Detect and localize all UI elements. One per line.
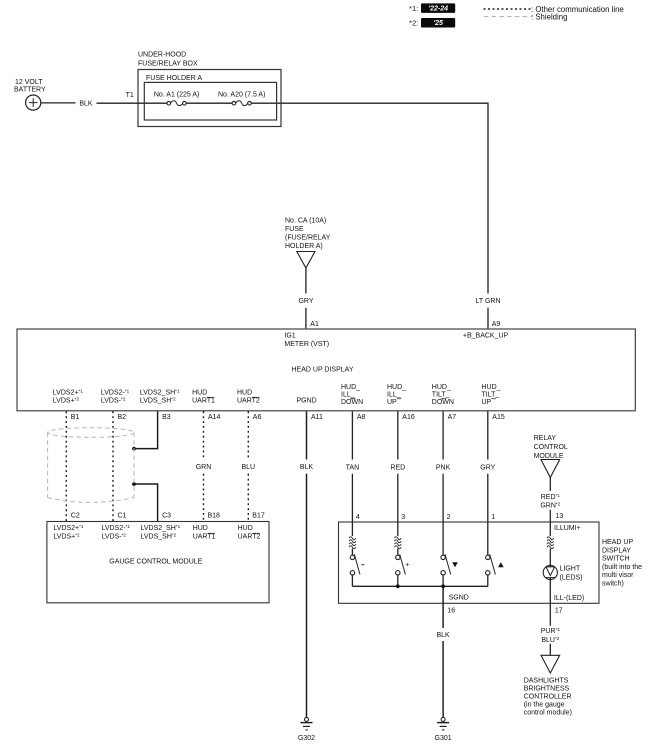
svg-text:TAN: TAN xyxy=(346,464,359,471)
svg-text:LVDS2_SH*1: LVDS2_SH*1 xyxy=(141,524,181,532)
svg-text:FUSE/RELAY BOX: FUSE/RELAY BOX xyxy=(138,61,198,68)
svg-text:DISPLAY: DISPLAY xyxy=(602,547,631,554)
svg-text:12 VOLT: 12 VOLT xyxy=(15,79,43,86)
svg-text:UART1: UART1 xyxy=(192,398,215,405)
svg-text:UP: UP xyxy=(482,399,492,406)
svg-text:HEAD UP: HEAD UP xyxy=(602,539,633,546)
svg-text:HUD_: HUD_ xyxy=(482,384,501,391)
svg-text:ILLUMI+: ILLUMI+ xyxy=(554,525,581,532)
svg-text:GRY: GRY xyxy=(298,298,313,305)
svg-text:HUD: HUD xyxy=(238,525,253,532)
svg-text:4: 4 xyxy=(356,514,360,521)
svg-text:GRY: GRY xyxy=(480,464,495,471)
svg-text:HUD: HUD xyxy=(237,389,252,396)
svg-text:ILL_: ILL_ xyxy=(341,391,355,398)
svg-text:switch): switch) xyxy=(602,581,624,588)
svg-text:METER (VST): METER (VST) xyxy=(284,341,329,348)
svg-text:RELAY: RELAY xyxy=(534,435,557,442)
svg-text:13: 13 xyxy=(556,513,564,520)
svg-text:HUD_: HUD_ xyxy=(341,384,360,391)
svg-text:LVDS2_SH*1: LVDS2_SH*1 xyxy=(140,388,180,396)
svg-text:control module): control module) xyxy=(524,710,572,717)
svg-text:DOWN: DOWN xyxy=(341,399,363,406)
svg-text:BLK: BLK xyxy=(300,464,314,471)
svg-text:ILL_: ILL_ xyxy=(387,391,401,398)
svg-text:C1: C1 xyxy=(118,513,127,520)
svg-text:C3: C3 xyxy=(162,513,171,520)
svg-text:GAUGE CONTROL MODULE: GAUGE CONTROL MODULE xyxy=(109,559,202,566)
svg-text:UART2: UART2 xyxy=(237,398,260,405)
svg-text:DASHLIGHTS: DASHLIGHTS xyxy=(524,677,569,684)
svg-text:'25: '25 xyxy=(433,20,443,27)
svg-text:ILL-(LED): ILL-(LED) xyxy=(554,595,584,602)
svg-text:(FUSE/RELAY: (FUSE/RELAY xyxy=(285,235,331,242)
svg-text:BLK: BLK xyxy=(79,100,93,107)
svg-text:A14: A14 xyxy=(208,414,221,421)
svg-text:BRIGHTNESS: BRIGHTNESS xyxy=(524,685,570,692)
svg-text:A7: A7 xyxy=(448,414,457,421)
svg-text:GRN: GRN xyxy=(196,464,212,471)
svg-text:3: 3 xyxy=(401,514,405,521)
svg-text:LVDS_SH*2: LVDS_SH*2 xyxy=(140,397,176,405)
svg-text:BATTERY: BATTERY xyxy=(14,87,46,94)
svg-text:FUSE: FUSE xyxy=(285,226,304,233)
svg-text:(built into the: (built into the xyxy=(602,564,642,571)
svg-text:HEAD UP DISPLAY: HEAD UP DISPLAY xyxy=(292,366,354,373)
svg-text:G302: G302 xyxy=(298,735,315,742)
svg-text:multi visor: multi visor xyxy=(602,572,634,579)
svg-text:SGND: SGND xyxy=(449,595,469,602)
svg-text:PGND: PGND xyxy=(297,398,317,405)
svg-text:TILT_: TILT_ xyxy=(482,391,500,398)
svg-text:B18: B18 xyxy=(208,513,221,520)
svg-text:PNK: PNK xyxy=(436,464,451,471)
svg-text:A15: A15 xyxy=(492,414,505,421)
svg-text:T1: T1 xyxy=(126,92,134,99)
svg-text:(LEDS): (LEDS) xyxy=(560,575,583,582)
svg-text:(in the gauge: (in the gauge xyxy=(524,702,565,709)
svg-text:A6: A6 xyxy=(253,414,262,421)
svg-text:+: + xyxy=(405,562,409,569)
svg-text:A16: A16 xyxy=(402,414,415,421)
svg-text:No. CA (10A): No. CA (10A) xyxy=(285,218,326,225)
svg-text:HUD: HUD xyxy=(193,525,208,532)
svg-text:17: 17 xyxy=(555,607,563,614)
svg-text:BLU: BLU xyxy=(241,464,255,471)
svg-text:MODULE: MODULE xyxy=(534,453,564,460)
svg-text:2: 2 xyxy=(447,514,451,521)
svg-text:UART2: UART2 xyxy=(238,534,261,541)
svg-text:*1:: *1: xyxy=(409,4,418,13)
svg-text:HUD_: HUD_ xyxy=(432,384,451,391)
svg-text:No. A20 (7.5 A): No. A20 (7.5 A) xyxy=(218,92,265,99)
svg-text:CONTROL: CONTROL xyxy=(534,444,568,451)
svg-text:BLK: BLK xyxy=(436,632,450,639)
svg-text:HUD: HUD xyxy=(192,389,207,396)
svg-text:LVDS_SH*2: LVDS_SH*2 xyxy=(141,533,177,541)
svg-text:B3: B3 xyxy=(162,414,171,421)
svg-text:C2: C2 xyxy=(71,513,80,520)
svg-text:LIGHT: LIGHT xyxy=(560,566,581,573)
svg-text:TILT_: TILT_ xyxy=(432,391,450,398)
svg-text:UNDER-HOOD: UNDER-HOOD xyxy=(138,52,186,59)
svg-text:DOWN: DOWN xyxy=(432,399,454,406)
svg-text:A8: A8 xyxy=(357,414,366,421)
svg-text:No. A1 (225 A): No. A1 (225 A) xyxy=(154,92,200,99)
svg-text:'22-24: '22-24 xyxy=(428,6,448,13)
svg-text:UART1: UART1 xyxy=(193,534,216,541)
svg-text:1: 1 xyxy=(491,514,495,521)
svg-text:CONTROLLER: CONTROLLER xyxy=(524,694,572,701)
svg-text:B17: B17 xyxy=(252,513,265,520)
svg-text:G301: G301 xyxy=(435,735,452,742)
svg-text:+B_BACK_UP: +B_BACK_UP xyxy=(463,332,509,339)
svg-text:LT GRN: LT GRN xyxy=(475,298,500,305)
svg-text:B2: B2 xyxy=(118,414,127,421)
svg-text:*2:: *2: xyxy=(409,19,418,28)
svg-text:A11: A11 xyxy=(311,414,323,421)
svg-text:HUD_: HUD_ xyxy=(387,384,406,391)
svg-text:HOLDER A): HOLDER A) xyxy=(285,243,323,250)
svg-text:SWITCH: SWITCH xyxy=(602,556,630,563)
svg-text:: Shielding: : Shielding xyxy=(531,12,567,21)
svg-text:16: 16 xyxy=(447,607,455,614)
svg-text:B1: B1 xyxy=(71,414,80,421)
svg-text:UP: UP xyxy=(387,399,397,406)
svg-text:A1: A1 xyxy=(310,321,319,328)
svg-text:IG1: IG1 xyxy=(284,332,295,339)
svg-text:RED: RED xyxy=(390,464,405,471)
svg-text:FUSE HOLDER A: FUSE HOLDER A xyxy=(146,75,202,82)
svg-text:A9: A9 xyxy=(492,321,501,328)
